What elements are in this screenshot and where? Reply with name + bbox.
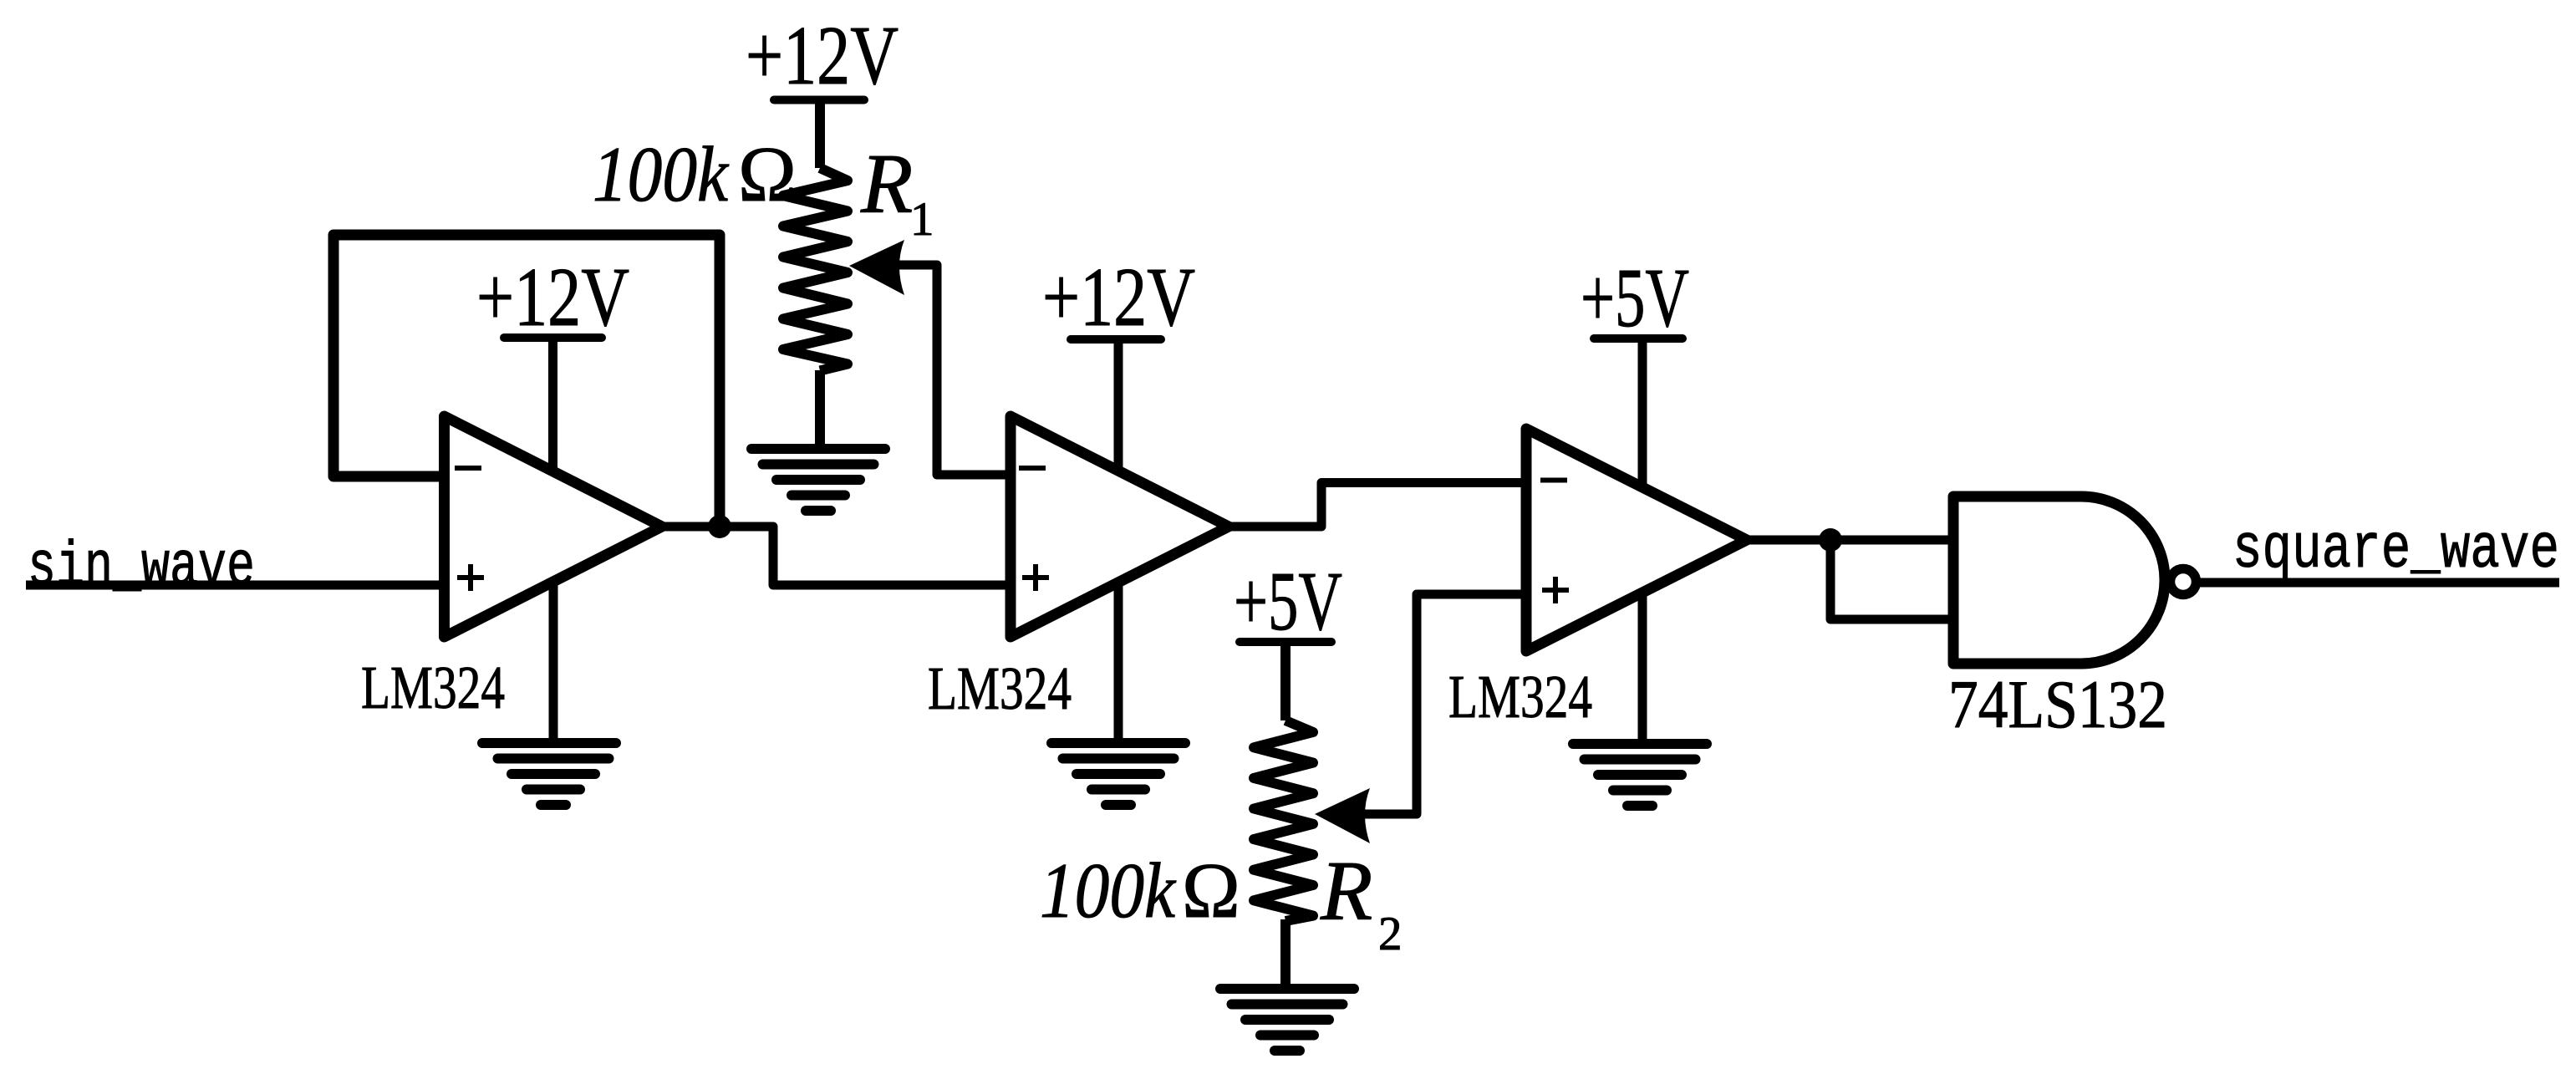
svg-text:LM324: LM324 (361, 654, 505, 721)
svg-text:sin_wave: sin_wave (28, 532, 255, 603)
svg-text:Ω: Ω (738, 131, 797, 218)
svg-text:R: R (860, 137, 913, 232)
svg-text:+12V: +12V (476, 250, 629, 344)
svg-text:100k: 100k (593, 131, 730, 218)
svg-text:+12V: +12V (746, 8, 899, 102)
svg-text:R: R (1320, 844, 1372, 939)
svg-text:+5V: +5V (1234, 554, 1342, 648)
svg-text:square_wave: square_wave (2232, 515, 2559, 586)
svg-text:Ω: Ω (1182, 848, 1240, 934)
svg-text:74LS132: 74LS132 (1948, 666, 2167, 742)
svg-text:1: 1 (910, 193, 934, 246)
svg-text:2: 2 (1378, 908, 1403, 960)
svg-text:+12V: +12V (1042, 250, 1195, 344)
svg-text:100k: 100k (1040, 848, 1177, 934)
svg-text:LM324: LM324 (928, 654, 1072, 722)
svg-text:+5V: +5V (1581, 251, 1689, 344)
svg-text:LM324: LM324 (1448, 663, 1592, 730)
